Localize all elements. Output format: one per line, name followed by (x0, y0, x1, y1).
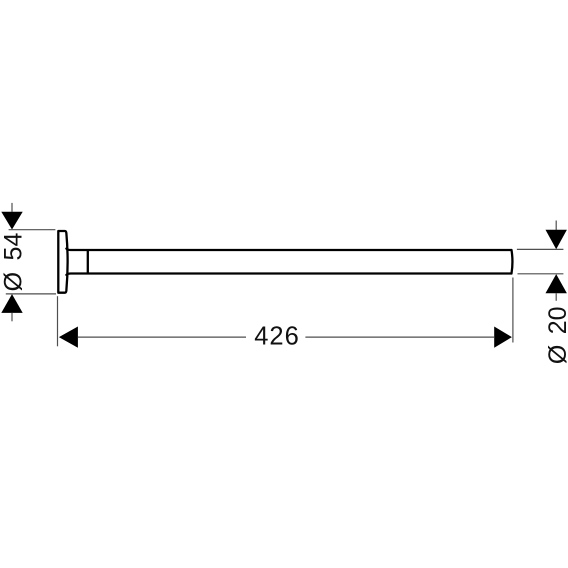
dim Ø54 upper stem line (11, 203, 13, 212)
dim Ø20 lower stem line (555, 293, 557, 301)
dim 426 left extension line (57, 296, 59, 346)
bar end cap (510, 250, 513, 274)
dim Ø20 lower arrow (546, 274, 567, 293)
stem junction line (87, 249, 89, 274)
dim 426 line left segment (78, 336, 246, 338)
dim Ø20 lower extension line (518, 273, 564, 275)
bar top outline (66, 249, 511, 250)
dim 426 line right segment (305, 336, 494, 338)
dim Ø54 upper arrow (1, 212, 22, 230)
svg-text:426: 426 (254, 323, 300, 351)
flange (wall plate, side view) (58, 231, 67, 293)
dim Ø54 lower arrow (1, 294, 22, 313)
bar bottom outline (66, 274, 511, 275)
dim Ø54 lower extension line (6, 293, 56, 295)
dim 426 left arrow (59, 327, 78, 348)
dim Ø54 lower stem line (11, 313, 13, 321)
dim Ø20 upper extension line (517, 248, 564, 250)
dim 426 right arrow (494, 327, 512, 348)
dim Ø20 upper arrow (546, 230, 567, 249)
dim Ø20 upper stem line (555, 221, 557, 230)
dim 426 right extension line (512, 278, 514, 343)
svg-text:Ø 54: Ø 54 (0, 233, 27, 292)
dim Ø54 upper extension line (9, 229, 56, 231)
svg-text:Ø 20: Ø 20 (544, 306, 568, 364)
